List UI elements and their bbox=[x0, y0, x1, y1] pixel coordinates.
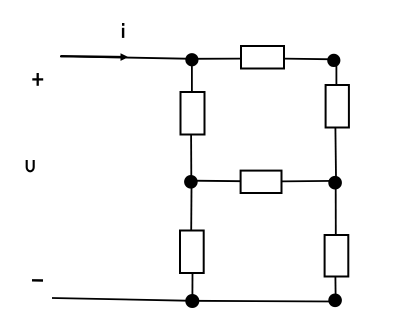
wire bottom return bbox=[52, 298, 335, 302]
resistor R4 (middle horizontal) bbox=[241, 171, 282, 193]
wire resistor R5 bottom to node E bbox=[191, 273, 193, 295]
wire node C to resistor R5 top bbox=[190, 188, 192, 231]
wire resistor R4 right to node D bbox=[282, 180, 335, 183]
label + (positive terminal) bbox=[32, 73, 43, 86]
label u (voltage) bbox=[27, 160, 34, 171]
node C (middle left junction) bbox=[184, 175, 198, 189]
wire node B to resistor R3 top bbox=[335, 60, 337, 85]
node D (middle right junction) bbox=[328, 176, 342, 190]
label - (negative terminal) bbox=[32, 279, 43, 282]
node F (bottom right junction) bbox=[328, 294, 342, 308]
wire resistor R2 bottom to node C bbox=[190, 135, 192, 177]
current arrow bbox=[61, 53, 129, 61]
label i (current) bbox=[122, 23, 125, 38]
wire node A to resistor R2 top bbox=[191, 60, 193, 92]
wire node A to resistor R1 left bbox=[192, 58, 241, 60]
wire resistor R6 bottom to node F bbox=[334, 277, 336, 295]
wire top-left input bbox=[60, 56, 192, 59]
resistor R3 (upper right vertical) bbox=[326, 85, 349, 128]
wire node D to resistor R6 top bbox=[335, 189, 337, 235]
node A (top left junction) bbox=[185, 53, 198, 66]
resistor R6 (lower right vertical) bbox=[325, 235, 349, 277]
node E (bottom left junction) bbox=[185, 294, 199, 308]
wire node C to resistor R4 left bbox=[192, 180, 241, 183]
wire resistor R1 right to node B bbox=[284, 58, 334, 61]
resistor R1 (top horizontal) bbox=[241, 46, 284, 69]
node B (top right junction) bbox=[327, 54, 340, 67]
resistor R5 (lower left vertical) bbox=[180, 231, 204, 274]
resistor R2 (upper left vertical) bbox=[181, 92, 205, 135]
wire resistor R3 bottom to node D bbox=[334, 128, 337, 178]
